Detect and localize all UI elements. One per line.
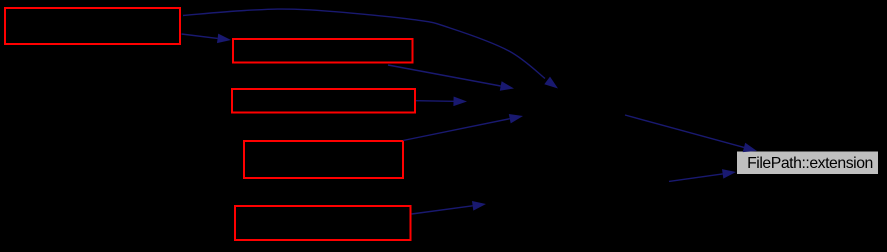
edge E to hidden node N2 xyxy=(412,206,473,214)
edge hidden node N2 to FilePath::extension xyxy=(669,174,723,182)
node A: caller box (red, label hidden) xyxy=(5,8,180,44)
edge A to hidden node N1 (long top curve) xyxy=(183,9,545,78)
node U1: FilePath::extension (current node, grey) xyxy=(737,152,878,175)
svg-text:FilePath::extension: FilePath::extension xyxy=(747,155,873,172)
edge C to hidden node N0 xyxy=(416,100,454,103)
node C: caller box (red, label hidden) xyxy=(232,89,415,113)
edge hidden node N1 to FilePath::extension xyxy=(625,115,744,147)
node B: caller box (red, label hidden) xyxy=(233,39,413,63)
node E: caller box (red, label hidden) xyxy=(235,206,411,240)
edge B to hidden node N1 xyxy=(388,65,501,86)
edge D to hidden node N1 xyxy=(403,119,510,141)
edge A to B xyxy=(182,34,218,38)
node D: caller box (red, label hidden) xyxy=(244,141,403,178)
